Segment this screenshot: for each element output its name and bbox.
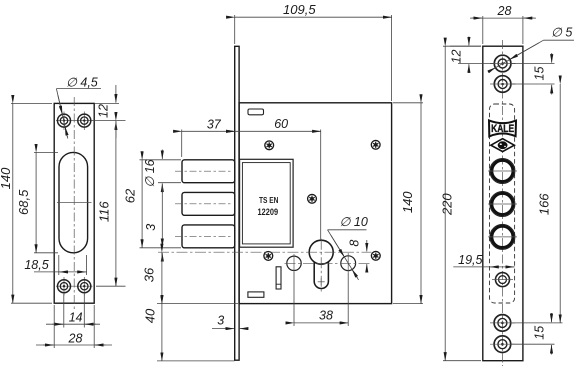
dim 3 bolt gap	[161, 238, 163, 262]
svg-text:68,5: 68,5	[16, 189, 31, 215]
deadbolt 1	[182, 160, 235, 183]
svg-text:62: 62	[123, 188, 138, 203]
vertical slot	[276, 267, 281, 289]
dim 62	[140, 160, 182, 248]
dim 116	[96, 121, 126, 287]
svg-text:60: 60	[274, 117, 288, 131]
KALE logo	[489, 120, 516, 136]
dim 15 top	[511, 53, 555, 95]
dashed case outline	[490, 104, 515, 303]
deadbolt 3	[182, 225, 235, 248]
screw A top-left	[265, 141, 274, 150]
vertical centerline	[502, 40, 504, 366]
svg-text:38: 38	[319, 309, 333, 323]
TSE diamond	[491, 139, 514, 152]
dim 12 left view	[91, 85, 126, 138]
small bottom rect	[248, 292, 264, 297]
bolt hole ring 1	[490, 159, 515, 184]
svg-text:18,5: 18,5	[24, 258, 48, 272]
svg-text:116: 116	[97, 201, 112, 222]
oval slot	[59, 152, 88, 252]
svg-text:28: 28	[68, 331, 83, 345]
screw B top-right	[371, 140, 380, 149]
svg-text:12: 12	[97, 104, 111, 118]
svg-text:19,5: 19,5	[458, 253, 482, 267]
screw D bottom-left	[264, 252, 273, 261]
svg-text:166: 166	[537, 193, 552, 215]
bolt hole ring 2	[490, 192, 515, 217]
dim 15 bottom	[511, 313, 555, 355]
svg-text:12: 12	[449, 50, 463, 64]
svg-text:109,5: 109,5	[283, 2, 316, 17]
dim 38	[294, 273, 348, 327]
dim 8	[366, 240, 368, 273]
dim 37	[182, 130, 235, 158]
dim 109,5 top	[235, 15, 392, 101]
svg-text:TS EN: TS EN	[259, 196, 279, 205]
screw E bottom-right	[371, 251, 380, 260]
svg-text:28: 28	[497, 4, 512, 18]
top screw hole 2	[494, 76, 511, 93]
euro cylinder profile	[309, 240, 333, 288]
dim 14	[46, 294, 100, 328]
bottom screw hole 2	[494, 336, 511, 353]
left plate centerlines	[73, 97, 75, 310]
dim 60	[235, 130, 321, 241]
faceplate strip	[235, 46, 239, 360]
svg-text:∅ 10: ∅ 10	[340, 215, 368, 229]
svg-text:14: 14	[69, 311, 83, 325]
svg-text:∅ 5: ∅ 5	[551, 25, 572, 39]
dim 18,5	[34, 255, 87, 275]
dim 140 middle	[393, 103, 423, 304]
dim 68,5	[34, 152, 58, 252]
bolt hole ring 3	[490, 224, 515, 249]
svg-text:∅ 4,5: ∅ 4,5	[66, 76, 98, 90]
left plate screw holes	[58, 114, 91, 293]
dim 19,5	[453, 266, 514, 268]
hub circle left	[287, 256, 301, 270]
svg-text:140: 140	[400, 191, 415, 213]
svg-text:220: 220	[439, 193, 454, 216]
faceplate outline	[483, 46, 523, 361]
svg-text:∅ 16: ∅ 16	[143, 159, 157, 187]
svg-text:36: 36	[142, 267, 157, 282]
screw C middle	[308, 194, 317, 203]
dim 220	[443, 46, 481, 361]
dim 28 top right	[470, 16, 536, 44]
top screw hole 1	[494, 55, 511, 72]
dim 40	[157, 304, 235, 361]
svg-text:KALE: KALE	[491, 123, 514, 135]
svg-text:12209: 12209	[258, 207, 279, 217]
cylinder screw hole	[496, 273, 510, 287]
dim 36	[157, 252, 238, 303]
deadbolt 2	[182, 192, 235, 215]
svg-text:40: 40	[143, 308, 158, 323]
deadbolt centerlines	[175, 171, 233, 236]
dim 12 right view	[450, 37, 494, 74]
dim 3 faceplate	[212, 328, 247, 330]
cylinder screw cross	[318, 278, 325, 285]
svg-text:15: 15	[532, 326, 546, 340]
svg-text:3: 3	[217, 314, 224, 328]
dim dia16	[161, 150, 163, 239]
svg-text:3: 3	[144, 224, 158, 231]
dim 140 left	[11, 103, 52, 303]
strike plate outline	[54, 103, 94, 303]
svg-text:15: 15	[533, 67, 547, 81]
bottom screw hole 1	[494, 315, 511, 332]
TS EN 12209 box	[240, 159, 294, 247]
dim 28 bottom left	[36, 305, 112, 348]
hole dia10 right	[341, 256, 356, 271]
svg-text:8: 8	[348, 240, 362, 247]
svg-text:140: 140	[0, 167, 13, 189]
centerline cylinder horizontal	[158, 239, 372, 292]
svg-text:37: 37	[207, 118, 222, 132]
lock case	[239, 103, 392, 304]
dim 166	[511, 84, 563, 323]
top slot	[248, 109, 264, 115]
